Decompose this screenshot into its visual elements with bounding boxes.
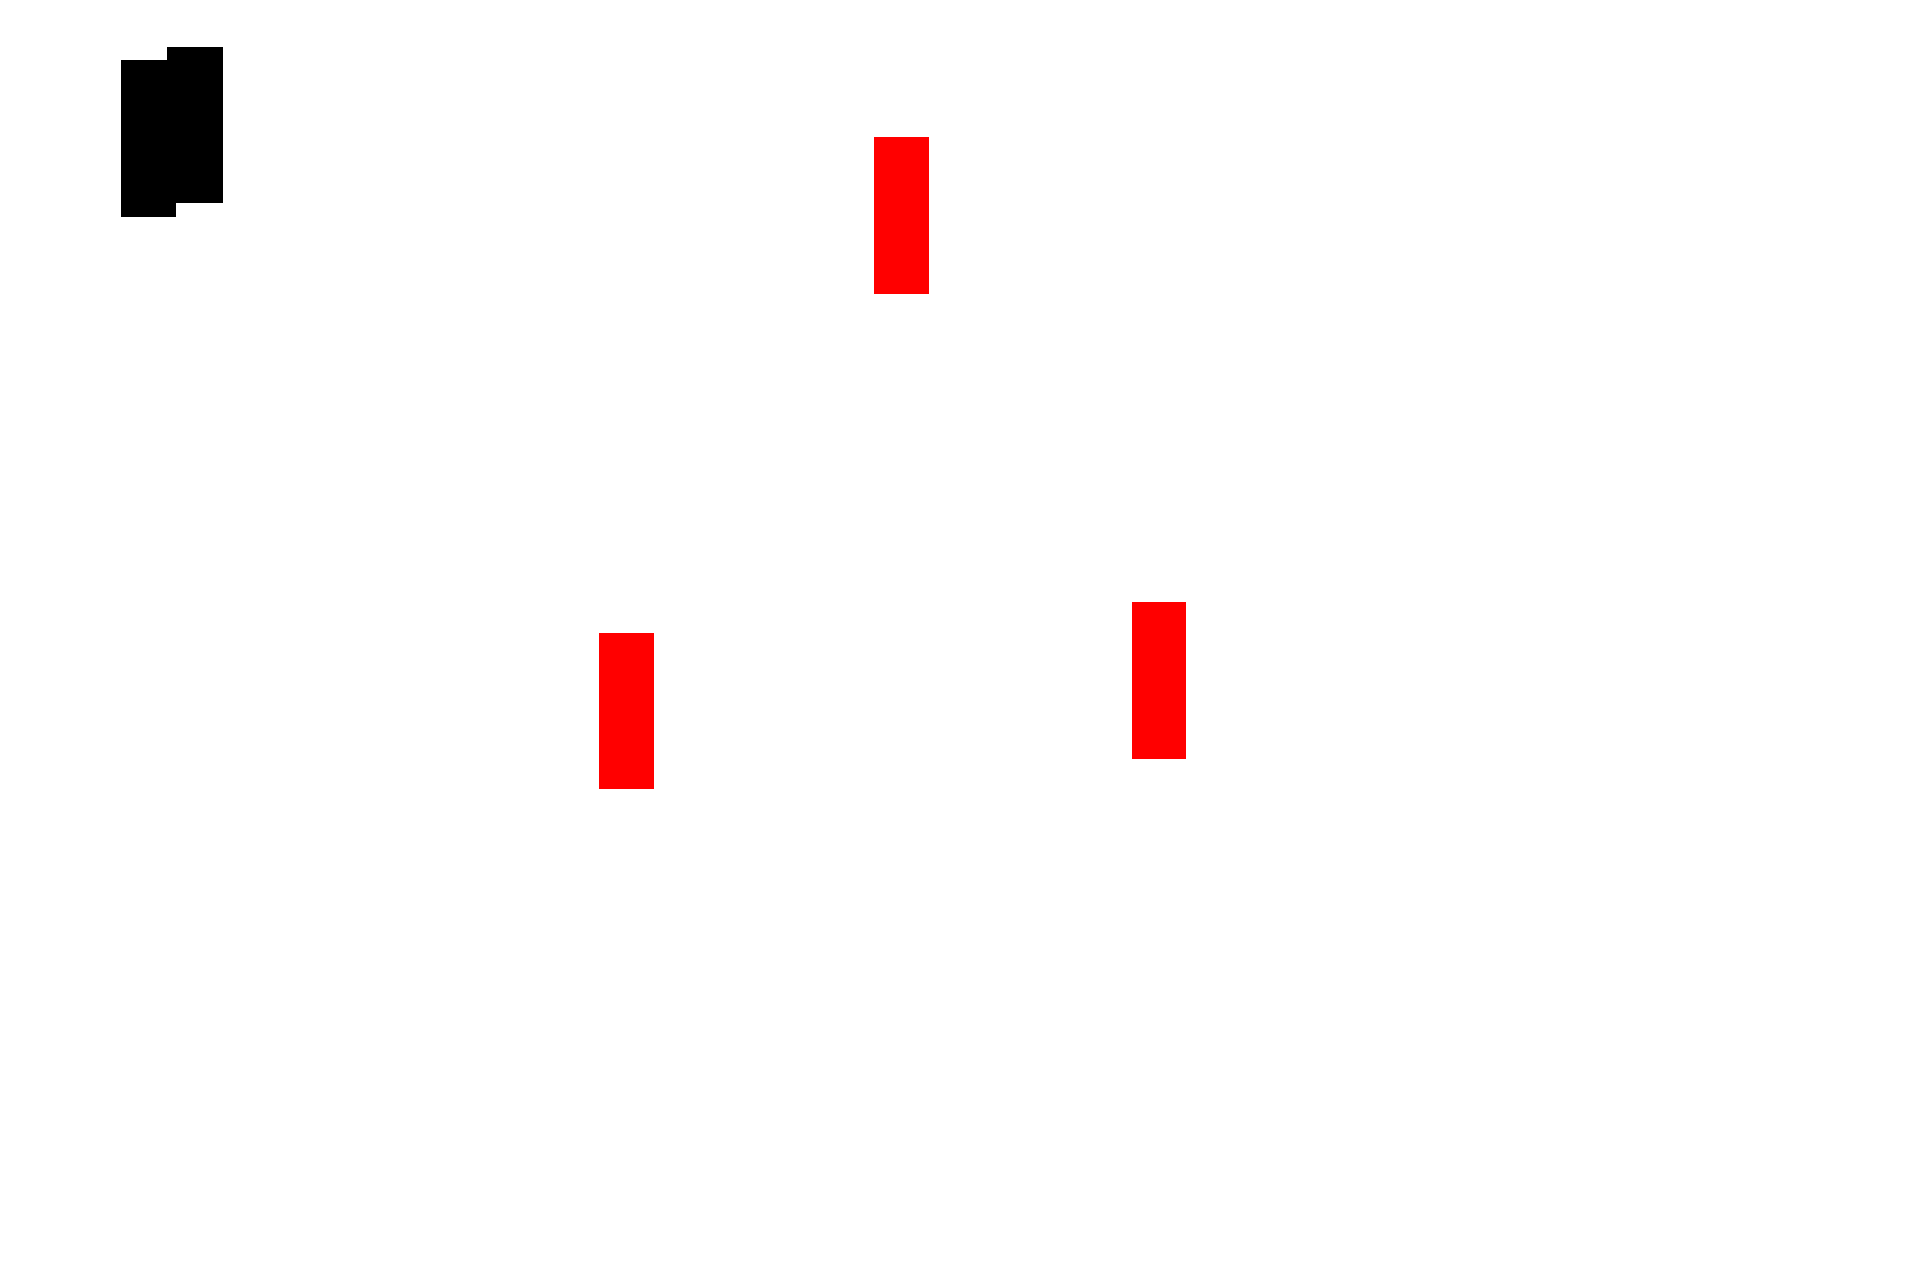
red rectangle 2 (center left) <box>599 633 654 789</box>
black rectangle A (lower-left part of overlapping pair) <box>121 60 176 217</box>
black rectangle B (upper-right part of overlapping pair) <box>167 47 223 203</box>
red rectangle 1 (top middle) <box>874 137 929 294</box>
red rectangle 3 (center right) <box>1132 602 1186 759</box>
